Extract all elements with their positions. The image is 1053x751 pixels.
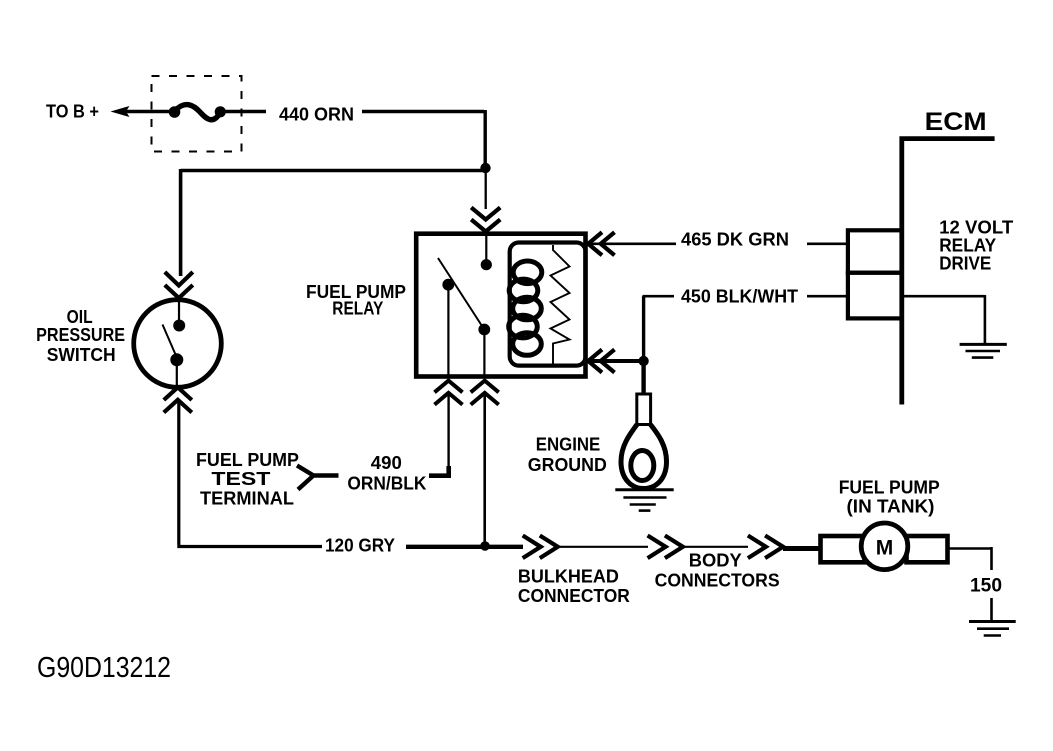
- engine ground symbol: [615, 490, 673, 511]
- label body connectors: [655, 551, 780, 591]
- body connector 2: [748, 536, 783, 559]
- svg-text:BULKHEAD: BULKHEAD: [518, 567, 619, 587]
- ECM connector pin 450: [848, 273, 902, 319]
- fuel pump ground symbol: [969, 622, 1016, 636]
- svg-text:450 BLK/WHT: 450 BLK/WHT: [681, 287, 798, 307]
- relay coil: [509, 261, 542, 355]
- wire 465 DK GRN: [589, 242, 849, 245]
- svg-text:CONNECTOR: CONNECTOR: [518, 586, 630, 606]
- svg-text:(IN TANK): (IN TANK): [847, 497, 935, 517]
- relay box: [416, 234, 585, 377]
- relay coil enclosure: [510, 243, 586, 366]
- junction node A: [480, 163, 490, 173]
- svg-text:DRIVE: DRIVE: [939, 254, 991, 274]
- wire into fuel pump: [783, 546, 820, 551]
- svg-text:ECM: ECM: [925, 108, 987, 136]
- svg-text:465 DK GRN: 465 DK GRN: [681, 230, 789, 250]
- fusible link enclosure (dashed): [152, 76, 242, 152]
- wire between body connectors: [683, 546, 748, 548]
- label bulkhead connector: [518, 567, 630, 607]
- connector 450 BLK/WHT into relay: [588, 350, 614, 373]
- oil pressure switch: [134, 299, 222, 388]
- svg-text:ENGINE: ENGINE: [536, 435, 601, 455]
- engine ground ring terminal: [621, 394, 667, 489]
- svg-text:FUEL PUMP: FUEL PUMP: [196, 450, 299, 470]
- fusible link: [169, 105, 226, 120]
- svg-text:RELAY: RELAY: [939, 236, 996, 256]
- label fuel pump relay: [306, 282, 406, 319]
- label fuel pump test terminal: [196, 450, 299, 509]
- svg-text:CONNECTORS: CONNECTORS: [655, 571, 780, 591]
- junction node B: [480, 541, 490, 551]
- label 490 ORN/BLK: [347, 453, 426, 494]
- svg-text:BODY: BODY: [689, 551, 742, 571]
- wire 120 GRY left run: [177, 400, 322, 547]
- wire branch to oil pressure switch: [181, 169, 486, 276]
- svg-text:TEST: TEST: [211, 469, 270, 489]
- wire bulkhead segment: [558, 546, 648, 548]
- svg-text:M: M: [876, 537, 894, 560]
- test terminal fork: [297, 466, 339, 490]
- label oil pressure switch: [36, 307, 125, 365]
- relay switch: [438, 236, 492, 375]
- svg-text:150: 150: [970, 576, 1002, 597]
- svg-text:440 ORN: 440 ORN: [279, 105, 354, 125]
- svg-text:TERMINAL: TERMINAL: [200, 489, 294, 509]
- svg-text:ORN/BLK: ORN/BLK: [347, 474, 426, 494]
- svg-text:GROUND: GROUND: [528, 455, 607, 475]
- ECM body line: [899, 137, 994, 405]
- svg-text:PRESSURE: PRESSURE: [36, 325, 125, 345]
- svg-text:SWITCH: SWITCH: [47, 345, 116, 365]
- svg-text:OIL: OIL: [67, 307, 93, 327]
- ECM ground wire: [904, 295, 985, 343]
- svg-text:12 VOLT: 12 VOLT: [939, 218, 1013, 238]
- svg-text:FUEL PUMP: FUEL PUMP: [839, 478, 940, 498]
- wire 490 ORN/BLK: [429, 466, 449, 478]
- label 12 volt relay drive: [939, 218, 1013, 274]
- relay coil resistor: [551, 245, 570, 364]
- wire 440 ORN from B+: [125, 110, 485, 168]
- svg-text:TO B +: TO B +: [46, 102, 99, 122]
- arrowhead to B+: [111, 106, 130, 117]
- fuel pump motor: [821, 523, 948, 570]
- label fuel pump (in tank): [839, 478, 940, 517]
- wire to engine ground: [641, 361, 645, 394]
- connector above oil pressure switch: [165, 272, 193, 298]
- connector relay to fuel pump feed: [471, 381, 499, 543]
- connector relay to test terminal: [435, 381, 463, 470]
- junction node C: [638, 356, 648, 366]
- label engine ground: [528, 435, 607, 476]
- wire 150 to ground: [948, 547, 992, 620]
- svg-text:G90D13212: G90D13212: [37, 652, 171, 684]
- bulkhead connector: [523, 536, 558, 559]
- svg-text:120 GRY: 120 GRY: [325, 536, 395, 556]
- ECM ground symbol: [960, 344, 1007, 357]
- body connector 1: [648, 536, 683, 559]
- ECM connector pin 465: [848, 230, 902, 272]
- svg-text:RELAY: RELAY: [332, 299, 383, 319]
- wire 450 BLK/WHT: [589, 359, 641, 363]
- connector below oil pressure switch: [164, 387, 192, 412]
- connector C100 into relay (top): [471, 172, 500, 232]
- svg-text:490: 490: [371, 453, 402, 473]
- wire 120 GRY right run: [406, 545, 523, 549]
- connector 465 DK GRN into relay: [588, 232, 614, 255]
